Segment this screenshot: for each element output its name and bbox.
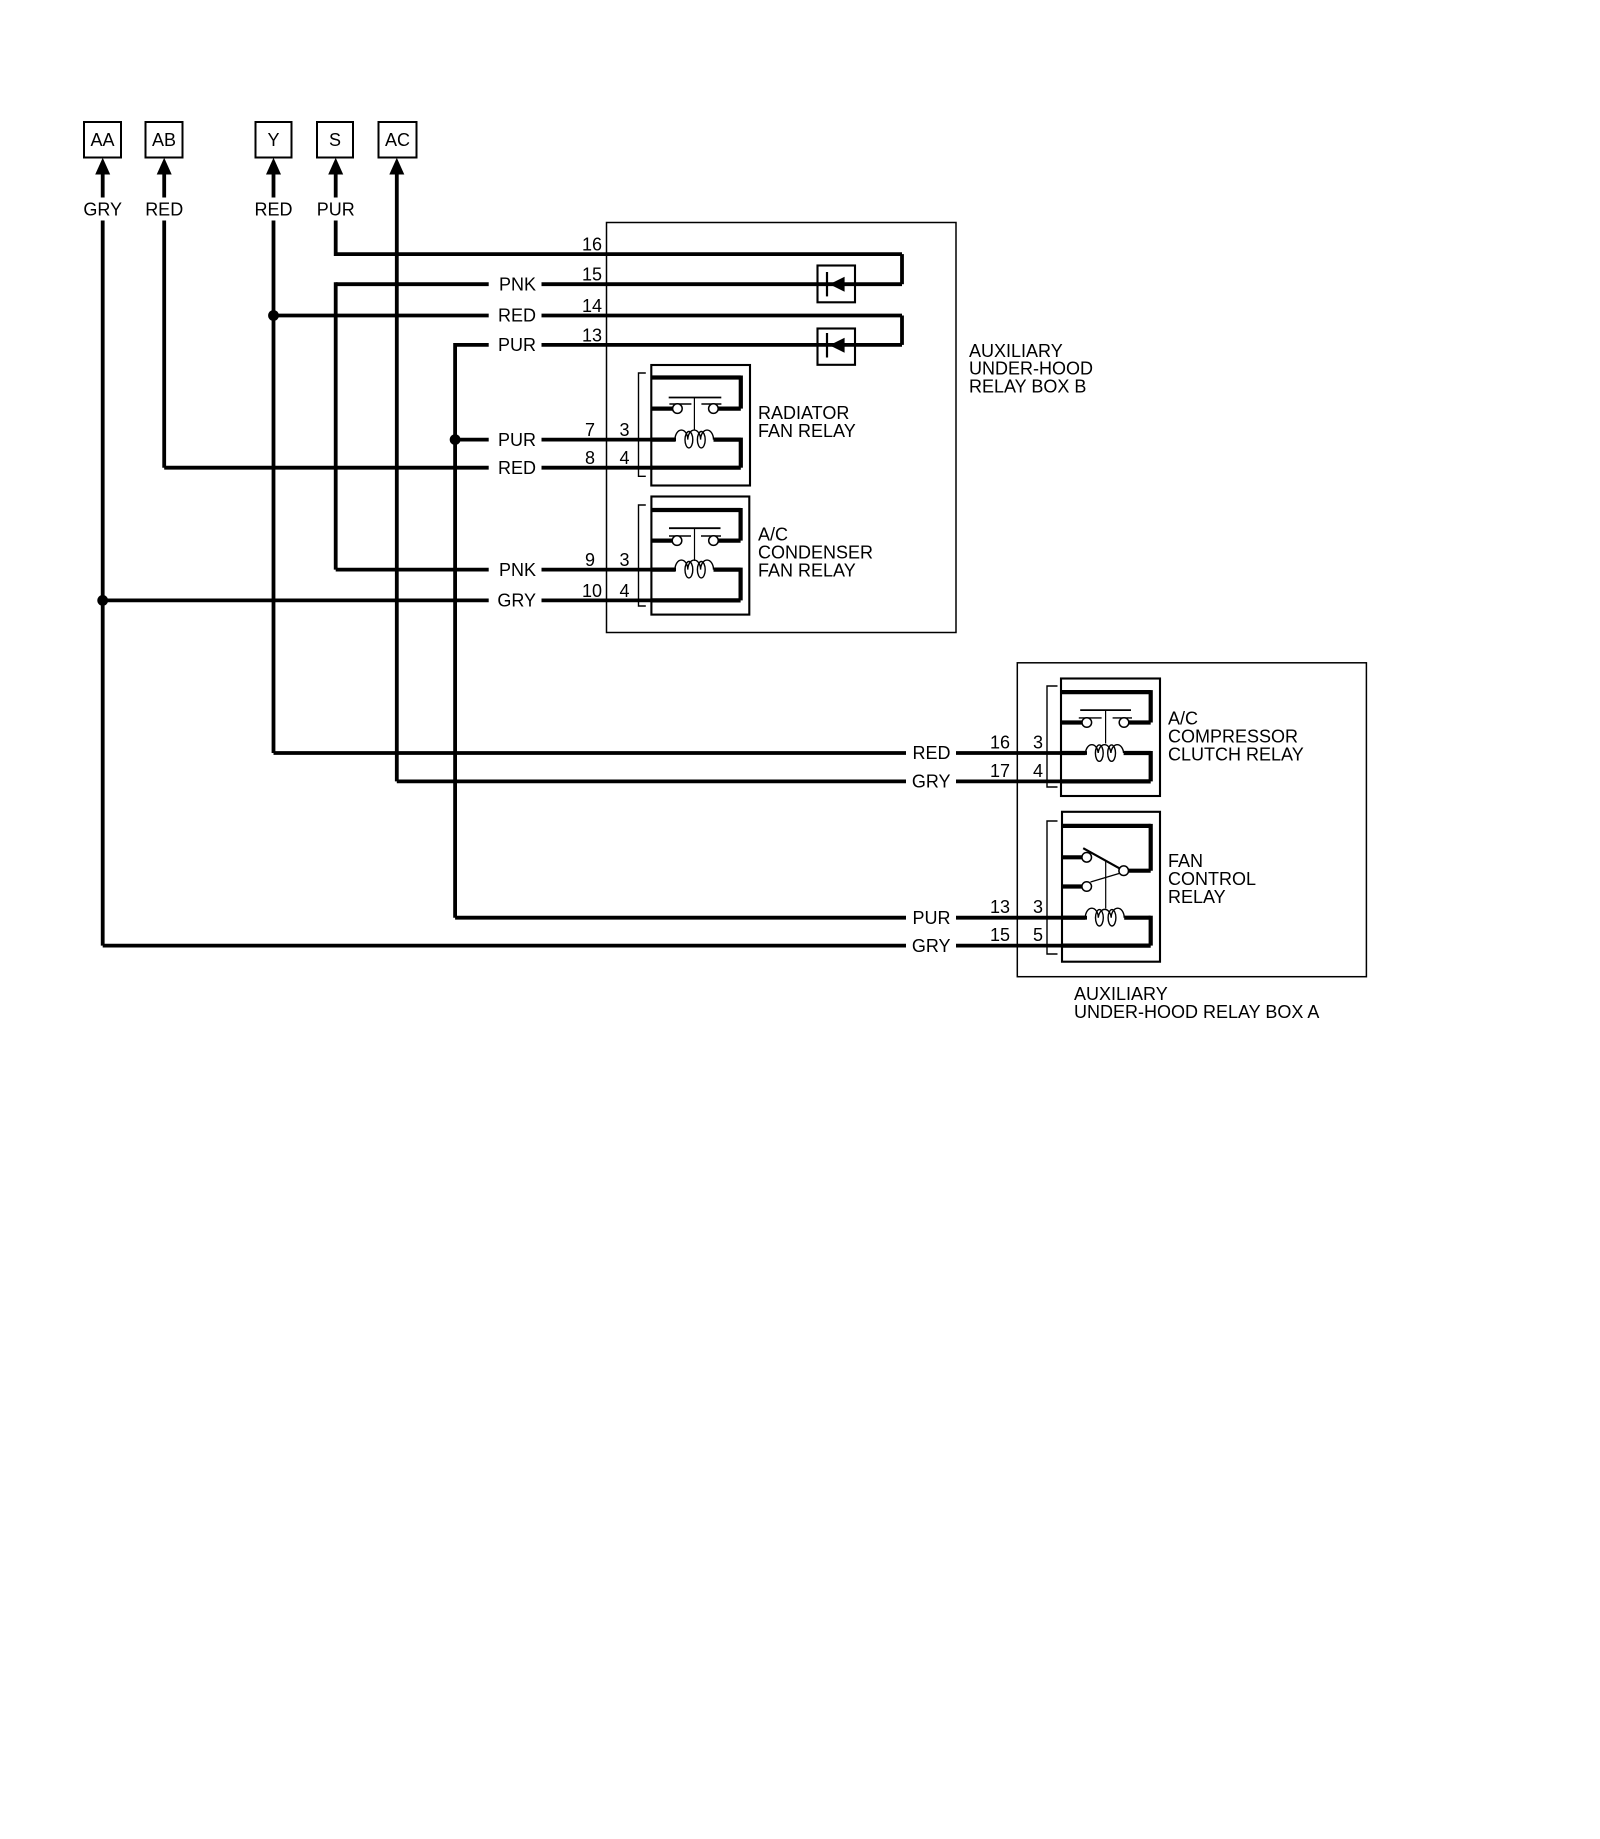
svg-text:AB: AB [152,130,176,150]
svg-text:CONTROL: CONTROL [1168,869,1256,889]
svg-text:AC: AC [385,130,410,150]
wire RED from Y down to relay box A pin 16 [274,221,1088,754]
svg-text:RED: RED [498,458,536,478]
fan control relay [1062,812,1160,962]
A/C compressor clutch relay [1061,679,1160,797]
svg-text:9: 9 [585,550,595,570]
connector bracket (radiator fan relay) [639,373,646,476]
connector bracket (A/C condenser fan relay) [639,505,646,606]
junction dot PUR net [450,434,461,445]
diode D1 (pin 15/16 loop) [818,266,856,303]
radiator fan relay [651,365,750,486]
svg-text:PUR: PUR [498,430,536,450]
wire GRY branch to relay box B pin 10 [103,599,653,603]
svg-text:7: 7 [585,420,595,440]
svg-text:13: 13 [582,325,602,345]
svg-text:FAN: FAN [1168,851,1203,871]
connector bracket (fan control relay) [1047,821,1058,954]
svg-text:RED: RED [145,200,183,220]
svg-text:5: 5 [1033,925,1043,945]
fan control relay label [1168,851,1256,907]
diode D2 (pin 13/14 loop) [818,329,856,365]
svg-text:15: 15 [582,265,602,285]
svg-text:4: 4 [620,581,630,601]
connector AC [379,122,417,175]
svg-text:3: 3 [620,550,630,570]
wire GRY from AA down to relay box A pin 15 [103,221,1064,946]
svg-text:UNDER-HOOD: UNDER-HOOD [969,359,1093,379]
svg-text:UNDER-HOOD RELAY BOX A: UNDER-HOOD RELAY BOX A [1074,1002,1319,1022]
svg-text:PNK: PNK [499,560,536,580]
A/C compressor clutch relay label [1168,709,1304,765]
relay box B title [969,341,1093,397]
svg-text:3: 3 [620,420,630,440]
wire PUR branch to relay box B pin 7 [455,438,676,442]
svg-text:15: 15 [990,925,1010,945]
radiator fan relay label [758,403,856,441]
connector S [317,122,353,198]
svg-text:FAN RELAY: FAN RELAY [758,421,856,441]
svg-text:13: 13 [990,897,1010,917]
svg-text:8: 8 [585,448,595,468]
svg-text:FAN RELAY: FAN RELAY [758,560,856,580]
wire RED branch to relay box B pin 14 [274,314,903,318]
svg-text:PUR: PUR [912,908,950,928]
svg-text:3: 3 [1033,897,1043,917]
svg-text:GRY: GRY [497,591,536,611]
connector bracket (A/C compressor clutch relay) [1047,686,1058,787]
svg-text:14: 14 [582,296,602,316]
svg-text:17: 17 [990,761,1010,781]
svg-text:RELAY: RELAY [1168,887,1226,907]
svg-text:3: 3 [1033,733,1043,753]
A/C condenser fan relay label [758,525,873,581]
svg-text:RED: RED [254,200,292,220]
svg-text:RED: RED [498,306,536,326]
wire RED from AB to relay box B pin 8 [164,221,653,468]
svg-text:16: 16 [582,235,602,255]
svg-text:10: 10 [582,581,602,601]
relay box A outline [1017,663,1366,977]
svg-text:RED: RED [912,743,950,763]
svg-text:AUXILIARY: AUXILIARY [1074,984,1168,1004]
svg-text:Y: Y [267,130,279,150]
wire loop pin16 to diode (inside box B) [900,254,904,284]
wire PNK linking pin 15 and pin 9 of relay box B [336,282,902,569]
svg-text:RELAY BOX B: RELAY BOX B [969,377,1086,397]
svg-text:PUR: PUR [317,200,355,220]
svg-text:PNK: PNK [499,274,536,294]
svg-text:GRY: GRY [83,200,122,220]
relay box B outline [607,223,957,633]
connector AB [146,122,183,198]
wire PUR from relay box B pin 13 down to relay box A pin 13 [455,343,1087,918]
wire loop pin14 to diode (inside box B) [900,316,904,345]
svg-text:RADIATOR: RADIATOR [758,403,849,423]
svg-text:PUR: PUR [498,335,536,355]
svg-text:16: 16 [990,733,1010,753]
junction dot RED net [268,310,279,321]
connector Y [256,122,292,198]
svg-text:GRY: GRY [912,772,951,792]
svg-text:4: 4 [1033,761,1043,781]
junction dot GRY net [97,595,108,606]
wire GRY from AC down to relay box A pin 17 [397,174,1064,781]
svg-text:GRY: GRY [912,936,951,956]
svg-text:CLUTCH RELAY: CLUTCH RELAY [1168,744,1304,764]
svg-text:S: S [329,130,341,150]
wire PUR from S to relay box B pin 16 [336,221,902,257]
svg-text:4: 4 [620,448,630,468]
A/C condenser fan relay [651,497,749,615]
connector AA [84,122,121,198]
relay box A title [1074,984,1319,1022]
svg-text:AA: AA [90,130,114,150]
